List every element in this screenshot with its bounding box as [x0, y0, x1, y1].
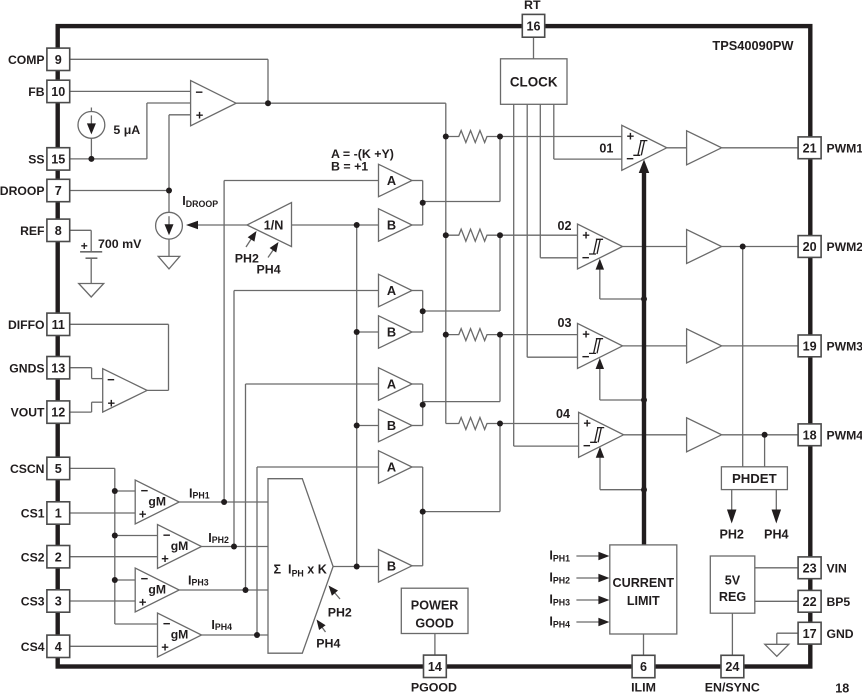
svg-text:16: 16: [526, 19, 540, 33]
svg-text:8: 8: [55, 224, 62, 238]
svg-text:CLOCK: CLOCK: [510, 74, 558, 89]
svg-text:−: −: [626, 151, 634, 166]
svg-text:1: 1: [55, 507, 62, 521]
svg-text:03: 03: [557, 316, 571, 330]
svg-text:B: B: [387, 325, 396, 340]
svg-text:17: 17: [803, 627, 817, 641]
svg-text:CSCN: CSCN: [10, 462, 45, 476]
svg-text:PH4: PH4: [257, 262, 281, 276]
svg-text:FB: FB: [28, 85, 44, 99]
svg-text:VOUT: VOUT: [11, 406, 45, 420]
svg-text:4: 4: [55, 640, 62, 654]
svg-text:gM: gM: [148, 583, 166, 597]
svg-text:PGOOD: PGOOD: [411, 681, 457, 693]
svg-text:gM: gM: [148, 495, 166, 509]
svg-text:LIMIT: LIMIT: [627, 594, 660, 608]
svg-text:+: +: [108, 395, 116, 410]
svg-text:B: B: [387, 558, 396, 573]
svg-text:PH4: PH4: [316, 636, 340, 650]
svg-text:+: +: [627, 129, 635, 144]
svg-text:CS3: CS3: [21, 595, 45, 609]
svg-text:RT: RT: [524, 0, 541, 12]
svg-text:−: −: [107, 372, 115, 387]
svg-text:PH2: PH2: [719, 528, 744, 542]
svg-text:+: +: [196, 108, 204, 123]
svg-text:REG: REG: [719, 590, 746, 604]
svg-text:+: +: [161, 640, 169, 655]
svg-text:GOOD: GOOD: [415, 617, 453, 631]
svg-text:6: 6: [640, 660, 647, 674]
svg-text:18: 18: [835, 682, 849, 693]
svg-text:1/N: 1/N: [264, 219, 284, 233]
svg-text:12: 12: [51, 406, 65, 420]
svg-text:2: 2: [55, 550, 62, 564]
svg-text:−: −: [195, 85, 203, 100]
svg-text:CS2: CS2: [21, 550, 45, 564]
svg-text:+: +: [582, 327, 590, 342]
svg-text:02: 02: [557, 219, 571, 233]
svg-text:13: 13: [51, 361, 65, 375]
svg-text:PH4: PH4: [764, 528, 789, 542]
svg-text:gM: gM: [171, 539, 189, 553]
svg-text:18: 18: [803, 428, 817, 442]
svg-text:−: −: [163, 528, 171, 543]
svg-text:DROOP: DROOP: [0, 184, 45, 198]
svg-text:POWER: POWER: [411, 599, 459, 613]
svg-text:EN/SYNC: EN/SYNC: [705, 681, 760, 693]
svg-text:B: B: [387, 418, 396, 433]
svg-text:5V: 5V: [725, 574, 741, 588]
svg-text:A: A: [387, 283, 396, 298]
svg-text:24: 24: [725, 660, 739, 674]
svg-text:01: 01: [599, 142, 613, 156]
svg-text:PHDET: PHDET: [732, 471, 777, 486]
svg-text:21: 21: [803, 141, 817, 155]
svg-text:10: 10: [51, 85, 65, 99]
svg-text:GND: GND: [827, 627, 854, 641]
svg-text:20: 20: [803, 240, 817, 254]
svg-text:−: −: [141, 571, 149, 586]
svg-text:−: −: [141, 483, 149, 498]
svg-text:9: 9: [55, 53, 62, 67]
svg-text:−: −: [583, 438, 591, 453]
svg-text:SS: SS: [28, 153, 44, 167]
svg-text:5: 5: [55, 462, 62, 476]
svg-text:3: 3: [55, 595, 62, 609]
svg-text:23: 23: [803, 561, 817, 575]
svg-text:gM: gM: [171, 628, 189, 642]
svg-text:DIFFO: DIFFO: [8, 318, 45, 332]
svg-text:+: +: [139, 595, 147, 610]
svg-text:A: A: [387, 377, 396, 392]
svg-text:11: 11: [52, 318, 65, 332]
svg-text:GNDS: GNDS: [9, 361, 44, 375]
svg-text:+: +: [161, 551, 169, 566]
svg-text:VIN: VIN: [827, 561, 847, 575]
svg-text:−: −: [582, 349, 590, 364]
svg-text:REF: REF: [20, 224, 44, 238]
svg-text:PWM3: PWM3: [827, 340, 862, 354]
svg-text:B: B: [387, 218, 396, 233]
svg-text:14: 14: [428, 660, 442, 674]
svg-text:PWM4: PWM4: [827, 428, 862, 442]
svg-text:CS1: CS1: [21, 507, 45, 521]
svg-text:CURRENT: CURRENT: [613, 576, 675, 590]
svg-text:+: +: [139, 507, 147, 522]
svg-text:19: 19: [803, 340, 817, 354]
svg-text:+: +: [81, 239, 88, 253]
svg-text:+: +: [583, 416, 591, 431]
svg-text:04: 04: [556, 407, 570, 421]
svg-text:B = +1: B = +1: [331, 160, 368, 174]
svg-text:TPS40090PW: TPS40090PW: [712, 38, 794, 53]
svg-text:CS4: CS4: [21, 640, 45, 654]
svg-text:−: −: [582, 250, 590, 265]
svg-text:ILIM: ILIM: [631, 681, 656, 693]
svg-text:COMP: COMP: [8, 53, 45, 67]
svg-text:700 mV: 700 mV: [98, 237, 142, 251]
svg-text:PH2: PH2: [328, 606, 352, 620]
svg-text:+: +: [582, 227, 590, 242]
svg-text:BP5: BP5: [827, 595, 851, 609]
svg-text:5 μA: 5 μA: [113, 123, 140, 137]
svg-text:PH2: PH2: [235, 251, 259, 265]
svg-text:PWM1: PWM1: [827, 141, 862, 155]
svg-text:A: A: [387, 173, 396, 188]
svg-text:7: 7: [55, 184, 62, 198]
svg-text:−: −: [163, 616, 171, 631]
svg-text:A: A: [387, 460, 396, 475]
svg-text:22: 22: [803, 595, 817, 609]
svg-text:15: 15: [51, 153, 65, 167]
svg-text:PWM2: PWM2: [827, 240, 862, 254]
